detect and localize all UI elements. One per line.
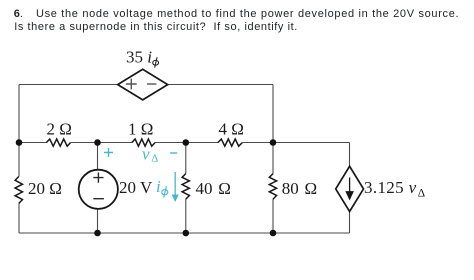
wire: 80-ohm bottom stub xyxy=(272,199,274,233)
svg-text:4 Ω: 4 Ω xyxy=(219,120,244,139)
wire: right rail from top wire down to middle node xyxy=(272,85,274,143)
resistor 2 Ohm (zigzag) xyxy=(46,139,70,146)
svg-text:v: v xyxy=(142,145,150,164)
dependent source 3.125 v_delta (diamond) xyxy=(336,166,364,211)
label i_phi (control current, cyan) xyxy=(156,177,168,198)
wire: 40-ohm top stub xyxy=(185,143,187,174)
wire: top wire right segment from 35i source to right rail xyxy=(168,84,273,86)
wire: left rail middle node to 20-ohm xyxy=(18,143,20,177)
node dot: 40-ohm top node xyxy=(183,139,190,146)
node dot: 40-ohm bottom node xyxy=(183,230,190,237)
plus sign inside 20V source xyxy=(93,173,103,183)
wire: 40-ohm bottom stub xyxy=(185,199,187,233)
resistor 1 Ohm (zigzag) xyxy=(132,139,155,146)
node dot: 20V top node xyxy=(94,139,101,146)
dependent source 35 i_phi (diamond) xyxy=(118,69,168,100)
wire: left rail 20-ohm to bottom wire xyxy=(18,203,20,233)
wire: top wire left segment to 35i source xyxy=(19,84,118,86)
arrow inside 3.125v dependent source xyxy=(346,178,353,200)
svg-text:i: i xyxy=(156,177,161,196)
svg-text:20 V: 20 V xyxy=(119,178,153,197)
label 35 i_phi xyxy=(126,47,159,67)
wire: far right branch down to dependent source xyxy=(349,143,351,167)
svg-text:20 Ω: 20 Ω xyxy=(28,179,62,198)
label 3.125 v_delta xyxy=(364,178,425,200)
arrow for i_phi (cyan, downward) xyxy=(172,172,179,202)
svg-text:3.125 v: 3.125 v xyxy=(364,178,417,197)
wire: middle wire node A to 2-ohm resistor xyxy=(19,142,46,144)
wire: bottom wire xyxy=(19,232,350,234)
minus sign inside 35i diamond xyxy=(147,83,157,85)
svg-text:2 Ω: 2 Ω xyxy=(47,120,72,139)
svg-text:40 Ω: 40 Ω xyxy=(196,179,231,198)
svg-text:35 i: 35 i xyxy=(126,47,152,66)
resistor 20 Ohm (zigzag) xyxy=(15,177,22,204)
svg-text:Δ: Δ xyxy=(151,153,158,165)
svg-text:80 Ω: 80 Ω xyxy=(282,179,317,198)
minus sign of v_delta (cyan) xyxy=(170,152,177,154)
minus sign inside 20V source xyxy=(93,198,104,200)
node dot: 80-ohm bottom node xyxy=(270,230,277,237)
wire: 80-ohm top stub xyxy=(272,143,274,174)
plus sign inside 35i diamond xyxy=(126,79,137,90)
voltage source 20V (circle) xyxy=(79,170,118,209)
plus sign of v_delta (cyan) xyxy=(104,148,113,157)
node dot: 80-ohm top node xyxy=(270,139,277,146)
wire: far right branch dependent source to bottom wire xyxy=(349,212,351,234)
resistor 80 Ohm (zigzag) xyxy=(269,174,276,200)
node dot: 20V bottom node xyxy=(94,230,101,237)
wire: 20V source top stub xyxy=(97,143,99,170)
wire: middle wire 4-ohm to far-right corner xyxy=(242,142,349,144)
wire: middle wire 1-ohm to 4-ohm through 40-ohm top node xyxy=(155,142,218,144)
wire: 20V source bottom stub xyxy=(97,209,99,233)
svg-text:Δ: Δ xyxy=(418,188,425,200)
label v_delta (cyan, across 1 Ohm) xyxy=(142,145,158,165)
wire: top-left rail from top wire down to left middle node xyxy=(18,85,20,143)
resistor 4 Ohm (zigzag) xyxy=(218,139,242,146)
node dot: left middle node xyxy=(16,139,23,146)
svg-text:1 Ω: 1 Ω xyxy=(128,120,153,139)
resistor 40 Ohm (zigzag) xyxy=(182,174,189,200)
wire: middle wire 2-ohm to 1-ohm through 20V top node xyxy=(71,142,132,144)
problem statement text xyxy=(0,0,474,1)
